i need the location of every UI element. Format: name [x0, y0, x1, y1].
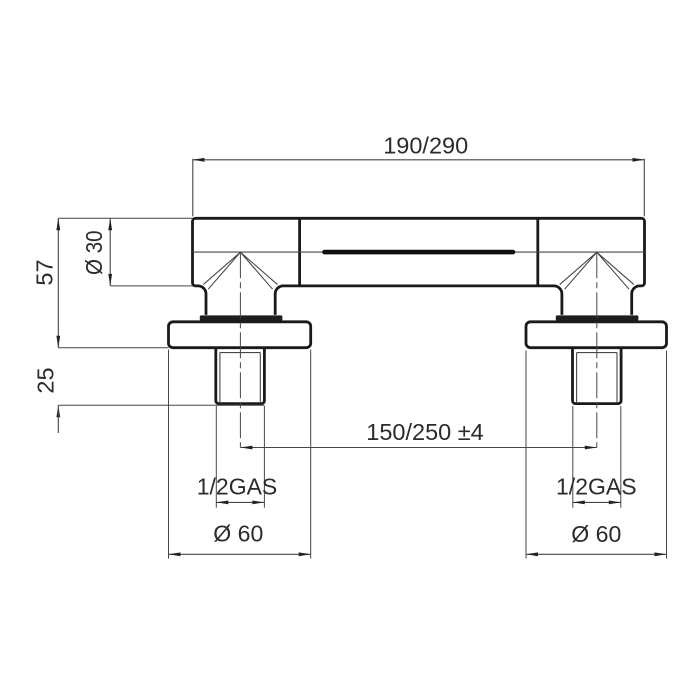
left extension line body top	[58, 217, 192, 219]
left O60 dim line	[169, 553, 311, 555]
right O60 extension lines	[526, 351, 667, 559]
dim 57 arrows	[56, 218, 60, 348]
body divider left	[298, 218, 301, 286]
left 1/2GAS extension lines	[216, 406, 264, 508]
extension line flange bottom	[58, 347, 168, 349]
svg-text:57: 57	[32, 259, 58, 285]
left 1/2GAS arrows	[216, 501, 264, 505]
body divider right	[536, 218, 539, 286]
right O60 arrows	[526, 552, 667, 556]
body bottom edge between wall unions	[275, 286, 562, 315]
body outer profile	[193, 218, 645, 315]
left 1/2GAS dim line	[216, 501, 264, 503]
right 1/2GAS arrows	[573, 501, 621, 505]
dim 190/290 arrows	[193, 158, 645, 162]
extension line nipple bottom	[58, 404, 264, 406]
body axis centerline	[193, 251, 645, 253]
right 1/2GAS dim line	[573, 501, 621, 503]
slot bar	[325, 250, 514, 255]
right nipple outline	[573, 349, 622, 404]
dim 25 arrow and tail	[56, 405, 60, 417]
left extension line body bottom	[110, 285, 192, 287]
left union centerline	[239, 252, 241, 447]
left gasket washer	[200, 315, 283, 320]
dim 190/290 line	[193, 159, 645, 161]
dim 150/250 arrows	[240, 446, 596, 450]
right nipple thread lines	[577, 353, 617, 403]
left nipple outline	[216, 349, 265, 404]
left funnel cone lines	[203, 252, 277, 289]
svg-text:25: 25	[33, 367, 59, 393]
right gasket washer	[556, 315, 639, 320]
dim O30 arrows	[108, 218, 112, 286]
right union centerline	[596, 252, 598, 447]
dim 190/290 extension lines	[193, 159, 645, 217]
dim 150/250 line	[240, 447, 596, 449]
left O60 extension lines	[169, 350, 311, 559]
right funnel cone lines	[560, 252, 634, 289]
svg-text:1/2GAS: 1/2GAS	[197, 474, 278, 500]
svg-text:190/290: 190/290	[383, 133, 468, 159]
left O60 arrows	[169, 552, 311, 556]
right 1/2GAS extension lines	[573, 406, 621, 508]
svg-text:Ø 60: Ø 60	[571, 521, 621, 547]
svg-text:150/250 ±4: 150/250 ±4	[366, 419, 483, 445]
right flange	[526, 322, 667, 348]
dim 57 line	[57, 218, 59, 348]
left nipple thread lines	[220, 353, 260, 403]
svg-text:Ø 60: Ø 60	[213, 521, 263, 547]
svg-text:1/2GAS: 1/2GAS	[556, 474, 637, 500]
right O60 dim line	[526, 553, 667, 555]
left flange	[169, 322, 311, 348]
svg-text:Ø 30: Ø 30	[81, 230, 107, 275]
dim O30 line	[109, 218, 111, 286]
